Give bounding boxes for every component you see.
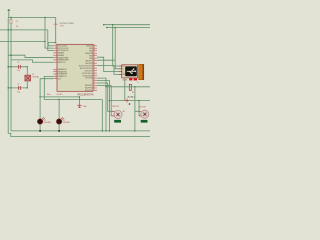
svg-text:RB5: RB5: [89, 58, 92, 60]
wire RA2 from bus1: [8, 55, 53, 57]
motor M2 green block: [141, 120, 148, 123]
junction LED2/rail: [58, 130, 60, 132]
wire motor2 bottom drop: [138, 101, 140, 116]
wire top rail 1: [8, 17, 56, 19]
U1 left pins: [53, 45, 57, 47]
wire motor2 top drop: [135, 87, 141, 112]
wire left bus 2 vertical: [10, 18, 12, 131]
wire LED2 long row: [44, 76, 102, 99]
svg-text:RC1/T1OSI/CCP2: RC1/T1OSI/CCP2: [80, 68, 92, 70]
wire motor2 top drop to rail: [134, 111, 136, 131]
wire top rail 2 (MCLR): [0, 29, 48, 31]
op-amp U1 microcontroller PIC16F877A body: [57, 44, 93, 91]
wire motor1 top: [97, 83, 114, 111]
svg-text:OSC1/CLKIN: OSC1/CLKIN: [58, 46, 67, 48]
junction motor2 top branch: [134, 86, 135, 87]
junction x109/rail: [109, 130, 110, 131]
U1 right pins: [93, 45, 97, 47]
svg-text:MCLR/Vpp/THV: MCLR/Vpp/THV: [58, 50, 69, 52]
svg-text:RB4: RB4: [89, 55, 92, 57]
wire LED1 from RE pin: [40, 79, 53, 119]
svg-text:RB2: RB2: [89, 50, 92, 52]
junction rail A / VCC drop: [112, 24, 113, 25]
svg-text:RD5/PSP5: RD5/PSP5: [85, 88, 92, 90]
wire USB D+ drop from rail B: [115, 28, 119, 69]
svg-text:RD6/PSP6: RD6/PSP6: [85, 90, 92, 92]
USB trident icon: [127, 69, 135, 73]
motor M2: [141, 110, 149, 118]
terminal on OSC1 wire: [54, 22, 58, 24]
svg-text:22p: 22p: [17, 91, 20, 93]
wire cap C1 row: [8, 66, 27, 68]
svg-text:RB6/PGC: RB6/PGC: [86, 60, 94, 62]
svg-text:RB1: RB1: [89, 48, 92, 50]
junction x135/rail: [134, 130, 135, 131]
wire OSC2 drop: [45, 18, 53, 49]
svg-text:U1(OSC1/CLKIN): U1(OSC1/CLKIN): [59, 23, 74, 25]
wire motor2 top via long row: [97, 78, 150, 87]
wire left bus 1 vertical: [7, 18, 9, 134]
wire motor2 bottom via Awd row: [97, 81, 150, 101]
junction x106/rail: [105, 130, 106, 131]
terminal on Awd wire: [125, 99, 129, 103]
wire x109 to rail: [108, 101, 110, 131]
svg-text:D+: D+: [122, 69, 124, 71]
wire right rail B: [107, 27, 150, 29]
capacitor C1: [17, 65, 20, 69]
svg-text:R2: R2: [132, 92, 134, 94]
svg-text:RC0/T1OSO/T1CKI: RC0/T1OSO/T1CKI: [79, 65, 93, 67]
junction rail B start: [106, 27, 107, 28]
junction motor2 bottom branch: [138, 100, 139, 101]
svg-text:PIC16F877A: PIC16F877A: [77, 92, 93, 96]
USB red pads: [129, 78, 132, 80]
junction LED1/rail: [39, 130, 41, 132]
junction bus2/rail2: [10, 29, 11, 30]
svg-text:10k: 10k: [16, 26, 19, 28]
wire OSC1 drop with jog: [48, 18, 56, 46]
wire ground rail 1: [11, 130, 150, 132]
svg-text:M1: M1: [123, 111, 125, 113]
svg-text:R1: R1: [16, 21, 18, 23]
wire MCLR drop to pin 1: [48, 30, 53, 51]
wire to gnd terminal: [79, 97, 81, 105]
wire USB D- from MCU: [97, 57, 119, 71]
USB connector J1 body: [122, 65, 138, 78]
wire USB GND from MCU: [97, 60, 119, 74]
junction x109 corner: [109, 100, 110, 101]
svg-text:MOTOR: MOTOR: [112, 106, 119, 108]
junction LED1 branch: [39, 96, 40, 97]
capacitor C2: [17, 86, 20, 90]
LED D2: [57, 119, 62, 124]
USB pins: [119, 65, 122, 67]
crystal X1: [25, 75, 31, 81]
junction bus2/rail1: [10, 17, 11, 18]
svg-text:RC3/SCK/SCL: RC3/SCK/SCL: [82, 73, 92, 75]
wire from left edge: [0, 40, 45, 42]
svg-text:RC5/SDO: RC5/SDO: [86, 78, 94, 80]
junction left-edge wire: [44, 41, 45, 42]
wire crystal top: [26, 67, 28, 75]
svg-text:RC2/CCP1: RC2/CCP1: [85, 70, 93, 72]
wire x125 below USB: [124, 78, 126, 101]
wire crystal bottom: [26, 81, 28, 88]
svg-text:OSC2/CLKOUT: OSC2/CLKOUT: [58, 48, 69, 50]
wire ground rail 2: [8, 133, 150, 136]
power terminal VCC arrow: [7, 9, 10, 11]
wire LED2 to rail: [58, 124, 60, 131]
svg-text:C2: C2: [17, 83, 19, 85]
USB plug orange block: [139, 64, 144, 79]
junction OSC drop/rail1: [44, 17, 45, 18]
terminal below chip: [77, 105, 81, 107]
svg-text:22p: 22p: [17, 70, 20, 72]
junction terminal branch: [79, 96, 80, 97]
svg-text:RD4/PSP4: RD4/PSP4: [85, 85, 92, 87]
wire drop to ground rail: [101, 100, 103, 131]
svg-text:C1: C1: [17, 62, 19, 64]
svg-text:RB3/PGM: RB3/PGM: [85, 53, 93, 55]
junction bus1/rail2: [8, 29, 9, 30]
wire cap C2 row: [8, 87, 27, 89]
motor M1 green block: [114, 120, 121, 123]
wire USB VCC drop from rail A: [113, 25, 119, 66]
resistor R1: [10, 20, 12, 24]
svg-text:Awd(B_): Awd(B_): [128, 95, 136, 98]
svg-text:RB7/PGD: RB7/PGD: [86, 63, 94, 65]
svg-text:MOTOR: MOTOR: [139, 107, 146, 109]
wire RA3 from bus2: [11, 60, 53, 62]
svg-text:D1: D1: [44, 120, 46, 122]
junction rail A start: [103, 24, 104, 25]
junction dot below terminal: [129, 103, 131, 105]
wire branch row under chip: [40, 96, 79, 98]
junction rail B / D+ drop: [115, 27, 116, 28]
wire x106 to rail: [105, 87, 107, 131]
wire motor2 bottom stub: [139, 115, 140, 117]
junction motor2 wire: [105, 86, 106, 87]
wire LED2 drop: [58, 100, 60, 119]
wire power stem: [8, 11, 10, 17]
svg-text:LED-RED: LED-RED: [63, 122, 71, 124]
wire right rail A: [104, 24, 150, 26]
svg-text:RB0/INT: RB0/INT: [86, 46, 92, 48]
junction RA2/bus2: [10, 55, 11, 56]
junction LED2 branch: [58, 99, 59, 100]
wire motor1 bottom: [97, 86, 114, 116]
svg-text:U1: U1: [54, 43, 56, 45]
svg-text:D2: D2: [63, 120, 65, 122]
svg-text:LED-RED: LED-RED: [44, 122, 52, 124]
svg-text:1kHz: 1kHz: [47, 94, 51, 96]
motor M1: [114, 110, 122, 118]
svg-text:X1: X1: [32, 74, 34, 76]
junction drop/rail: [102, 130, 103, 131]
wire LED1 to rail: [39, 124, 41, 131]
svg-text:<TEXT>: <TEXT>: [56, 93, 64, 96]
USB connector screen: [125, 66, 137, 76]
resistor R2 below USB: [129, 84, 131, 90]
LED D1: [38, 119, 43, 124]
